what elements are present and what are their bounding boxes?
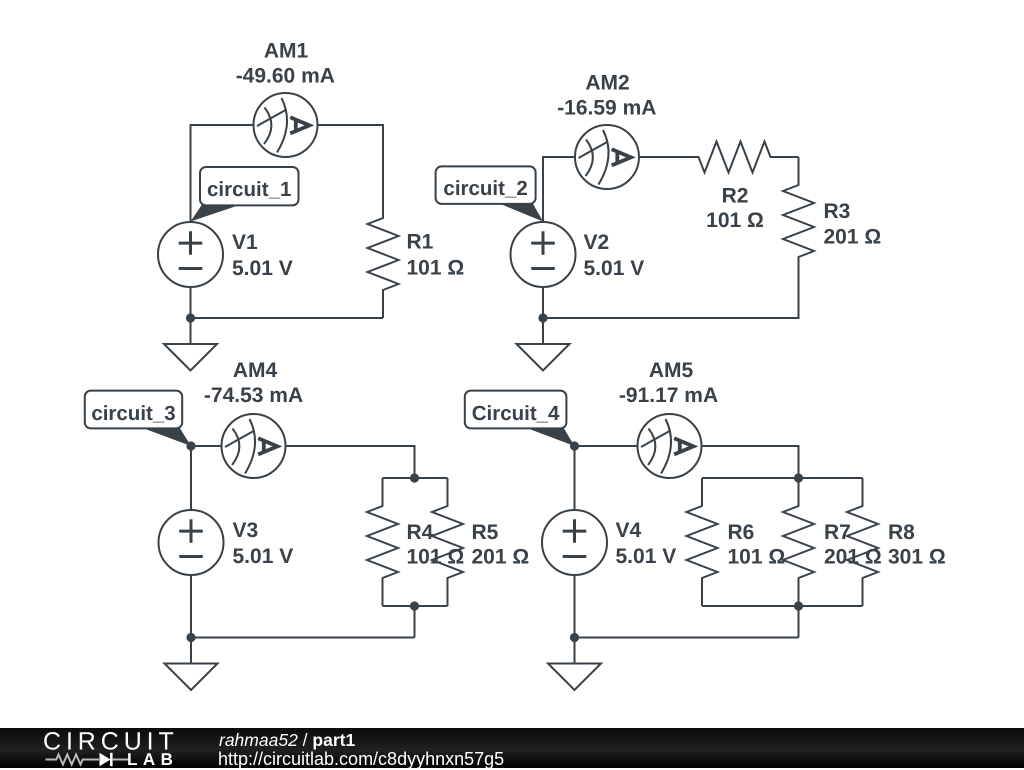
- svg-text:V4: V4: [616, 519, 642, 542]
- footer bar: [0, 728, 1024, 768]
- resistor R1: [368, 190, 399, 318]
- node label callout Circuit_4: [465, 391, 575, 446]
- resistor R3 labels (R3, 201 Ω): [824, 200, 882, 249]
- logo diode: [100, 753, 111, 766]
- wire AM5 right to parallel combo top: [702, 446, 799, 478]
- svg-text:101 Ω: 101 Ω: [407, 257, 465, 280]
- junction dot combo bottom: [410, 601, 419, 610]
- resistor R4 labels (R4, 101 Ω): [407, 521, 465, 569]
- ground circuit 1: [164, 318, 217, 371]
- resistor R7: [783, 478, 814, 606]
- svg-text:AM2: AM2: [585, 71, 629, 94]
- svg-text:101 Ω: 101 Ω: [728, 546, 786, 569]
- wire V2 bottom: [542, 287, 544, 318]
- svg-text:Circuit_4: Circuit_4: [472, 402, 560, 425]
- resistor R5 labels (R5, 201 Ω): [472, 521, 530, 569]
- node label callout circuit_3: [85, 391, 191, 446]
- junction dot circuit 4 top node: [570, 441, 579, 450]
- voltage source V4: [542, 510, 607, 575]
- svg-text:5.01 V: 5.01 V: [233, 545, 294, 568]
- junction dot combo top: [410, 473, 419, 482]
- junction dot circuit 1: [186, 313, 195, 322]
- ammeter AM1 labels (AM1, -49.60 mA): [236, 39, 335, 87]
- voltage source V2: [511, 222, 576, 287]
- svg-text:AM4: AM4: [233, 359, 278, 382]
- wire node to AM5 left: [575, 445, 638, 447]
- ammeter AM5: [638, 414, 702, 478]
- resistor R3: [783, 157, 814, 285]
- svg-text:AM5: AM5: [649, 359, 694, 382]
- svg-text:V1: V1: [232, 231, 258, 254]
- resistor R5: [432, 478, 463, 606]
- ammeter AM4: [222, 414, 286, 478]
- footer url: [218, 749, 504, 770]
- resistor R7 labels (R7, 201 Ω): [824, 521, 882, 569]
- svg-text:R5: R5: [472, 521, 499, 544]
- svg-text:LAB: LAB: [127, 750, 178, 768]
- resistor R2: [671, 142, 799, 173]
- svg-text:R6: R6: [728, 521, 755, 544]
- svg-text:101 Ω: 101 Ω: [706, 209, 764, 232]
- svg-text:5.01 V: 5.01 V: [584, 257, 645, 280]
- svg-text:5.01 V: 5.01 V: [232, 257, 293, 280]
- node label callout circuit_1: [191, 167, 299, 222]
- resistor R1 labels (R1, 101 Ω): [407, 231, 465, 280]
- footer user / project name: [219, 730, 355, 751]
- ammeter AM4 labels (AM4, -74.53 mA): [204, 359, 303, 407]
- ground circuit 4: [548, 638, 601, 691]
- logo resistor zigzag: [46, 755, 100, 765]
- resistor R8: [847, 478, 878, 606]
- svg-text:circuit_3: circuit_3: [91, 402, 175, 425]
- resistor R4: [367, 478, 398, 606]
- wire top bar of R4 R5 combo: [383, 477, 448, 479]
- svg-text:R2: R2: [722, 185, 749, 208]
- wire V3 bottom: [190, 575, 192, 638]
- svg-text:R4: R4: [407, 521, 434, 544]
- resistor R8 labels (R8, 301 Ω): [888, 521, 946, 569]
- svg-text:201 Ω: 201 Ω: [824, 226, 882, 249]
- wire V2 top to AM2 left: [543, 157, 575, 222]
- wire node down to V3 top: [190, 446, 192, 510]
- svg-text:-49.60 mA: -49.60 mA: [236, 64, 335, 87]
- wire bottom of circuit 1: [191, 317, 384, 319]
- svg-text:201 Ω: 201 Ω: [824, 546, 882, 569]
- wire bottom of circuit 3: [191, 637, 415, 639]
- wire bottom of circuit 4: [575, 637, 799, 639]
- svg-text:-16.59 mA: -16.59 mA: [557, 96, 656, 119]
- svg-text:R7: R7: [824, 521, 851, 544]
- wire V1 top to AM1 left: [191, 125, 254, 222]
- resistor R6 labels (R6, 101 Ω): [728, 521, 786, 569]
- junction dot combo4 bottom: [794, 601, 803, 610]
- svg-text:R1: R1: [407, 231, 434, 254]
- ground circuit 3: [165, 638, 218, 691]
- ammeter AM1: [254, 93, 318, 157]
- junction dot circuit 3 top node: [186, 441, 195, 450]
- wire bottom bar of R6 R7 R8 combo: [702, 605, 863, 607]
- voltage source V3: [159, 510, 224, 575]
- voltage source V1 labels (V1, 5.01 V): [232, 231, 293, 280]
- svg-text:5.01 V: 5.01 V: [616, 545, 677, 568]
- junction dot circuit 3 bottom: [186, 633, 195, 642]
- ammeter AM2 labels (AM2, -16.59 mA): [557, 71, 656, 119]
- voltage source V3 labels (V3, 5.01 V): [233, 519, 294, 568]
- wire AM2 right to R2 left: [639, 156, 671, 158]
- svg-text:201 Ω: 201 Ω: [472, 546, 530, 569]
- junction dot circuit 4 bottom: [570, 633, 579, 642]
- ammeter AM5 labels (AM5, -91.17 mA): [619, 359, 718, 407]
- svg-text:-91.17 mA: -91.17 mA: [619, 384, 718, 407]
- wire top bar of R6 R7 R8 combo: [702, 477, 863, 479]
- junction dot combo4 top: [794, 473, 803, 482]
- wire R3 bottom to bottom of circuit 2: [543, 285, 799, 318]
- svg-text:V3: V3: [233, 519, 259, 542]
- wire V4 bottom: [574, 575, 576, 638]
- wire AM1 right to R1 top: [318, 125, 384, 190]
- wire node down to V4 top: [574, 446, 576, 510]
- wire AM4 right to parallel combo top: [286, 446, 415, 478]
- resistor R2 labels (R2, 101 Ω): [706, 185, 764, 233]
- svg-text:AM1: AM1: [264, 39, 309, 62]
- svg-text:V2: V2: [584, 231, 610, 254]
- ammeter AM2: [575, 125, 639, 189]
- svg-text:-74.53 mA: -74.53 mA: [204, 384, 303, 407]
- resistor R6: [687, 478, 718, 606]
- voltage source V4 labels (V4, 5.01 V): [616, 519, 677, 568]
- svg-text:301 Ω: 301 Ω: [888, 546, 946, 569]
- wire combo bottom to bottom wire: [798, 606, 800, 638]
- wire combo bottom to bottom wire: [414, 606, 416, 638]
- svg-text:circuit_1: circuit_1: [207, 178, 291, 201]
- wire bottom bar of R4 R5 combo: [383, 605, 448, 607]
- ground circuit 2: [517, 318, 570, 371]
- svg-text:101 Ω: 101 Ω: [407, 546, 465, 569]
- svg-text:R3: R3: [824, 200, 851, 223]
- svg-text:R8: R8: [888, 521, 915, 544]
- wire node to AM4 left: [191, 445, 222, 447]
- wire V1 bottom: [190, 287, 192, 318]
- node label callout circuit_2: [436, 166, 543, 221]
- voltage source V2 labels (V2, 5.01 V): [584, 231, 645, 280]
- voltage source V1: [158, 222, 223, 287]
- junction dot circuit 2: [538, 313, 547, 322]
- svg-text:circuit_2: circuit_2: [443, 177, 527, 200]
